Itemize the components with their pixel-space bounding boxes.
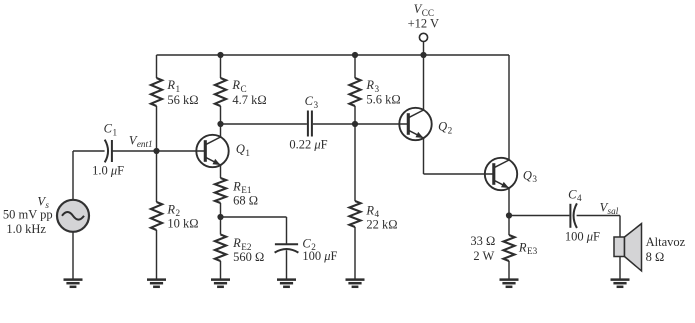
svg-text:8 Ω: 8 Ω bbox=[646, 250, 665, 264]
svg-text:5.6 kΩ: 5.6 kΩ bbox=[366, 92, 400, 106]
svg-text:Q1: Q1 bbox=[236, 142, 251, 158]
svg-text:560 Ω: 560 Ω bbox=[233, 250, 264, 264]
svg-text:C3: C3 bbox=[305, 94, 319, 110]
svg-text:4.7 kΩ: 4.7 kΩ bbox=[232, 93, 266, 107]
svg-text:0.22 μF: 0.22 μF bbox=[289, 137, 327, 151]
svg-text:Altavoz: Altavoz bbox=[646, 235, 686, 249]
svg-text:50 mV pp: 50 mV pp bbox=[3, 207, 53, 221]
svg-text:100 μF: 100 μF bbox=[302, 249, 337, 263]
svg-text:Q3: Q3 bbox=[523, 168, 538, 184]
svg-text:+12 V: +12 V bbox=[408, 16, 439, 30]
svg-text:68 Ω: 68 Ω bbox=[233, 193, 258, 207]
svg-text:1.0 kHz: 1.0 kHz bbox=[6, 222, 46, 236]
svg-text:10 kΩ: 10 kΩ bbox=[167, 216, 198, 230]
svg-text:100 μF: 100 μF bbox=[565, 230, 600, 244]
svg-text:Vent1: Vent1 bbox=[129, 133, 153, 149]
svg-text:22 kΩ: 22 kΩ bbox=[366, 218, 397, 232]
svg-text:Vsal: Vsal bbox=[600, 200, 619, 216]
svg-text:RC: RC bbox=[231, 78, 246, 94]
svg-text:1.0 μF: 1.0 μF bbox=[92, 163, 124, 177]
svg-text:33 Ω: 33 Ω bbox=[470, 234, 495, 248]
svg-text:Q2: Q2 bbox=[438, 120, 453, 136]
svg-text:R1: R1 bbox=[166, 78, 180, 94]
svg-text:2 W: 2 W bbox=[473, 249, 494, 263]
svg-text:C4: C4 bbox=[568, 187, 582, 203]
svg-text:C1: C1 bbox=[104, 122, 118, 138]
svg-text:56 kΩ: 56 kΩ bbox=[167, 93, 198, 107]
svg-text:RE3: RE3 bbox=[518, 240, 538, 256]
